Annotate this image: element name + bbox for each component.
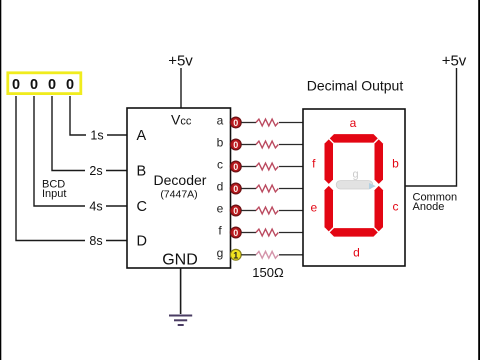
svg-text:a: a [350, 116, 357, 130]
output state a=0 [230, 117, 241, 128]
wire b [241, 144, 256, 146]
svg-text:e: e [310, 201, 317, 215]
segment c [375, 186, 384, 232]
left frame edge [0, 0, 1, 360]
svg-text:GND: GND [162, 252, 198, 269]
svg-text:Input: Input [42, 188, 66, 200]
label 8s [85, 234, 106, 249]
output state f=0 [230, 227, 241, 238]
segment e [325, 186, 334, 232]
wire +5v to common anode [405, 68, 457, 186]
segment b [375, 139, 384, 184]
resistor Ra [256, 119, 278, 126]
wire bit3 (8s) [16, 96, 127, 241]
svg-text:(7447A): (7447A) [160, 189, 197, 201]
wire d [241, 188, 256, 190]
svg-text:0: 0 [30, 77, 38, 93]
BCD input value box [8, 73, 81, 94]
svg-text:Anode: Anode [413, 201, 445, 213]
svg-text:C: C [137, 199, 147, 215]
wire +5v to Vcc [180, 68, 182, 108]
seven segment display box [303, 109, 405, 266]
resistor Re [256, 207, 278, 214]
svg-text:8s: 8s [89, 234, 102, 248]
svg-text:1s: 1s [90, 129, 103, 143]
wire c [241, 166, 256, 168]
svg-text:g: g [352, 169, 358, 181]
resistor Rg [256, 251, 278, 258]
svg-text:0: 0 [48, 77, 56, 93]
svg-text:B: B [137, 164, 147, 180]
segment f [325, 139, 334, 184]
svg-text:Decimal Output: Decimal Output [307, 78, 404, 94]
svg-text:0: 0 [233, 228, 238, 238]
output state b=0 [230, 139, 241, 150]
svg-text:g: g [217, 246, 224, 260]
label 1s [86, 128, 107, 143]
wire g [241, 254, 256, 256]
label Common Anode [413, 192, 458, 214]
segment g (off) [336, 181, 373, 189]
svg-text:D: D [137, 234, 147, 250]
svg-text:0: 0 [12, 77, 20, 93]
ground symbol [169, 316, 192, 326]
cursor arrow on segment g [369, 183, 376, 189]
svg-text:0: 0 [233, 184, 238, 194]
wires + resistors rows a-g [241, 123, 303, 255]
segment d [330, 228, 378, 237]
svg-text:0: 0 [233, 118, 238, 128]
label 4s [85, 199, 106, 214]
svg-text:+5v: +5v [442, 52, 467, 69]
svg-text:150Ω: 150Ω [252, 265, 284, 280]
wire bit2 (4s) [34, 96, 127, 206]
svg-text:A: A [137, 128, 147, 144]
svg-text:Decoder: Decoder [154, 172, 207, 188]
decoder U1 box (7447A) [127, 108, 231, 268]
svg-text:1: 1 [233, 250, 238, 260]
svg-text:0: 0 [233, 140, 238, 150]
output state e=0 [230, 205, 241, 216]
svg-text:c: c [393, 200, 399, 214]
resistor Rd [256, 185, 278, 192]
resistor Rf [256, 229, 278, 236]
svg-text:b: b [217, 136, 224, 150]
svg-text:d: d [353, 246, 360, 260]
svg-text:b: b [392, 157, 399, 171]
svg-text:c: c [217, 158, 223, 172]
svg-text:e: e [217, 202, 224, 216]
wire bit0 (1s) [70, 96, 127, 135]
wire f [241, 232, 256, 234]
output state d=0 [230, 183, 241, 194]
wire bit1 (2s) [52, 96, 127, 171]
svg-text:0: 0 [66, 77, 74, 93]
resistor Rb [256, 141, 278, 148]
svg-text:2s: 2s [89, 164, 102, 178]
label BCD Input [42, 179, 66, 200]
svg-text:4s: 4s [89, 200, 102, 214]
right frame edge [478, 0, 480, 360]
svg-text:0: 0 [233, 162, 238, 172]
label 2s [85, 164, 106, 179]
svg-text:0: 0 [233, 206, 238, 216]
wire e [241, 210, 256, 212]
resistor Rc [256, 163, 278, 170]
segment a [330, 134, 378, 143]
svg-text:d: d [217, 180, 224, 194]
svg-text:+5v: +5v [168, 52, 193, 69]
GND wire [180, 268, 182, 314]
wire a [241, 122, 256, 124]
output state c=0 [230, 161, 241, 172]
svg-text:a: a [217, 114, 224, 128]
output state g=1 [230, 249, 241, 260]
